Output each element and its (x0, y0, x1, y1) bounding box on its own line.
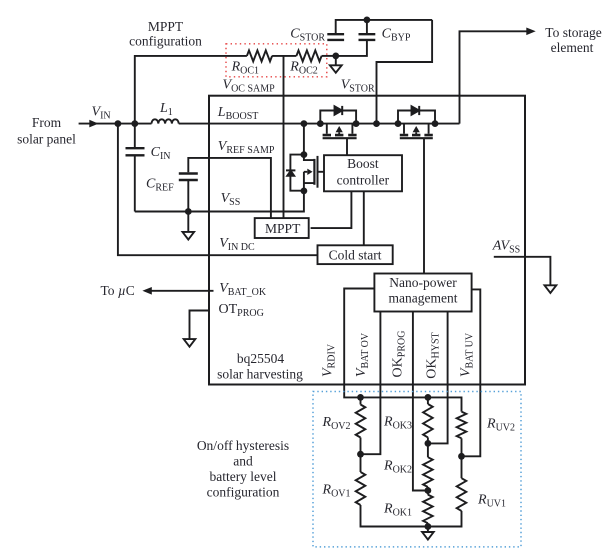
wire CIN bottom lead to VSS run (134, 157, 136, 212)
svg-text:management: management (389, 291, 458, 306)
wire RUV2 to RUV1 (461, 438, 463, 478)
svg-text:To storage: To storage (545, 25, 601, 40)
Q3 gate bar (400, 137, 433, 139)
svg-text:battery level: battery level (209, 469, 276, 484)
wire AVSS to ground (494, 257, 551, 286)
arrow VIN input (89, 120, 98, 128)
resistor ROV2 (356, 405, 366, 438)
wire VSS run to NMOS source (135, 191, 304, 212)
wire to storage element (460, 31, 529, 123)
wire OKHYST pin (428, 312, 448, 444)
transistor Q3 PMOS pass with body diode (398, 106, 435, 138)
MPPT box (255, 218, 309, 238)
node ROV2 top (357, 394, 364, 401)
wire MPPT configuration loop from VIN node up to ROC1 (135, 56, 247, 124)
svg-text:MPPT: MPPT (148, 19, 184, 34)
wire OKPROG pin (413, 312, 428, 491)
GROUNDS (183, 56, 557, 540)
svg-text:Boost: Boost (347, 156, 379, 171)
wire ROK1 bottom lead (427, 523, 429, 526)
node NMOS source (301, 188, 308, 195)
svg-text:and: and (233, 453, 253, 468)
diode D3 (412, 106, 420, 114)
svg-text:Cold start: Cold start (329, 247, 382, 262)
wire NMOS body diode loop (290, 155, 304, 191)
wire CIN top lead (134, 124, 136, 147)
wire bottom rail of resistor network (361, 505, 462, 527)
resistor ROK3 (423, 404, 433, 437)
wire main power rail VIN to storage (79, 123, 460, 125)
ground resistor network (422, 527, 434, 540)
wire CREF top lead and VREF SAMP to MPPT box (188, 158, 271, 218)
svg-text:From: From (32, 115, 62, 130)
svg-text:bq25504: bq25504 (237, 351, 285, 366)
node ROK2-ROK1 (425, 487, 432, 494)
wire ROK3 top lead (427, 397, 429, 404)
Q2 substrate arrow (336, 126, 343, 132)
node CBYP top (364, 17, 371, 24)
svg-text:configuration: configuration (129, 34, 202, 49)
boost controller box (324, 155, 402, 191)
ground AVSS (545, 285, 557, 293)
wire ROC1 to ROC2 (272, 55, 296, 57)
node VIN-MPPT (131, 120, 138, 127)
wire VOC SAMP from ROC1/ROC2 node down to MPPT box (283, 56, 285, 218)
ARROWS (89, 28, 535, 295)
svg-text:configuration: configuration (207, 484, 280, 499)
IC bq25504 box (209, 96, 525, 385)
svg-text:To µC: To µC (101, 283, 135, 298)
wire boost controller to MPPT box (311, 191, 352, 228)
svg-text:MPPT: MPPT (265, 221, 301, 236)
Q2 channel feet (323, 134, 357, 137)
nano-power management box (374, 274, 471, 312)
svg-text:On/off hysteresis: On/off hysteresis (197, 438, 289, 453)
wire ROV2 top lead (360, 397, 362, 404)
resistor ROV1 (356, 472, 366, 505)
resistor ROK1 (423, 495, 433, 524)
NMOS Q1 channel bar (313, 159, 315, 185)
node RUV mid (458, 453, 465, 460)
svg-text:solar harvesting: solar harvesting (217, 366, 303, 381)
Q3 substrate arrow (413, 126, 420, 132)
wire Q3 diode loop (398, 111, 435, 124)
node NMOS drain rail (301, 120, 308, 127)
Q3 legs (404, 124, 429, 136)
svg-text:element: element (551, 40, 594, 55)
node ROK3-ROK2 (425, 440, 432, 447)
wire VIN DC from VIN node to cold start (118, 124, 318, 256)
wire VBAT OV pin (361, 312, 381, 455)
node Q2 right (353, 120, 360, 127)
diode D2 (335, 106, 343, 114)
wire VBAT_OK to uC (145, 290, 214, 292)
NMOS Q1 terminals (304, 155, 314, 191)
node ground rail (425, 523, 432, 530)
NMOS Q1 gate bar (317, 156, 319, 188)
resistor ROC1 (247, 50, 272, 61)
wire NMOS drain from rail (303, 124, 305, 155)
inductor L1 (152, 119, 179, 123)
Q2 gate bar (323, 137, 357, 139)
node Q2 left (317, 120, 324, 127)
node CREF VSS (185, 208, 192, 215)
svg-text:solar panel: solar panel (17, 132, 76, 147)
wire ROK3 to ROK2 (427, 437, 429, 457)
ground VSS/CREF (183, 232, 195, 240)
wire ROK2 to ROK1 (427, 487, 429, 495)
node VIN-DC (115, 120, 122, 127)
node CSTOR bottom (332, 53, 339, 60)
node Q3 left (395, 120, 402, 127)
ground CSTOR (330, 56, 342, 73)
resistor ROC2 (296, 50, 321, 61)
transistor Q1 low-side NMOS with body diode (286, 155, 324, 191)
node VSTOR rail (373, 120, 380, 127)
wire CSTOR node to CBYP bottom (336, 41, 367, 56)
node ROK3 top (425, 394, 432, 401)
wire boost controller to cold start (363, 191, 365, 245)
node Q3 right (432, 120, 439, 127)
wire VBAT UV pin (462, 289, 481, 456)
wire VSTOR loop from top rail down to power rail (377, 20, 433, 124)
resistor ROK2 (423, 457, 433, 487)
wire VRDIV from nano-power box to resistor rail (344, 289, 461, 412)
blue dotted hysteresis configuration box (313, 392, 521, 547)
wire ROV mid leads (360, 438, 362, 473)
wire Q2 diode loop (320, 111, 356, 124)
wire CSTOR top to top rail (336, 20, 432, 33)
wire CREF bottom to ground (187, 181, 189, 232)
cold start box (318, 245, 393, 264)
capacitor CREF (179, 174, 198, 181)
BOXES (255, 155, 472, 311)
diode D1 body (287, 171, 294, 176)
NMOS Q1 gate lead (318, 171, 325, 173)
red dotted MPPT configuration box (226, 44, 327, 77)
wire boost controller to T1 gate (346, 138, 348, 155)
Q2 legs (327, 124, 353, 136)
capacitor CBYP (359, 34, 376, 40)
transistor Q2 PMOS pass with body diode (320, 106, 356, 138)
svg-text:controller: controller (337, 173, 390, 188)
arrow to uC (142, 287, 151, 295)
wire T2 gate down to nano-power box (423, 138, 425, 273)
resistor RUV1 (457, 478, 467, 511)
wire ROC2 to CSTOR node (322, 55, 336, 57)
node ROV mid (357, 451, 364, 458)
capacitor CIN (126, 148, 145, 155)
ground OTPROG (184, 339, 196, 347)
NMOS Q1 substrate arrow (307, 169, 312, 175)
arrow to storage element (526, 28, 535, 36)
svg-text:Nano-power: Nano-power (389, 275, 457, 290)
capacitor CSTOR (327, 34, 344, 40)
resistor RUV2 (457, 412, 467, 439)
Q3 channel feet (400, 134, 433, 137)
wire CBYP top lead (366, 20, 368, 33)
node NMOS drain (301, 151, 308, 158)
wire OTPROG to ground (190, 311, 210, 340)
